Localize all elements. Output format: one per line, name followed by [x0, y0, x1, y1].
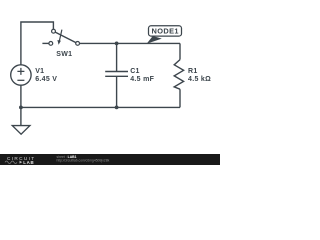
R1 value label 4.5 kOhm: [188, 76, 211, 83]
svg-text:4.5 kΩ: 4.5 kΩ: [188, 76, 211, 83]
watermark bar: [0, 154, 220, 165]
svg-text:LAB: LAB: [23, 160, 34, 165]
svg-text:6.45 V: 6.45 V: [35, 76, 57, 83]
R1 name label: [188, 68, 198, 75]
wire: V1 bottom lead down to bottom rail: [20, 85, 22, 107]
svg-text:4.5 mF: 4.5 mF: [130, 76, 154, 83]
junction: bottom rail / V1-ground: [19, 106, 23, 110]
svg-text:R1: R1: [188, 68, 198, 75]
node NODE1 flag: [147, 26, 182, 44]
V1 name label: [35, 68, 44, 75]
C1 value label 4.5 mF: [130, 76, 154, 83]
junction: top rail / C1 branch: [115, 42, 119, 46]
wire: V1 top lead up, across top-left, down to SW1 top throw: [21, 22, 54, 65]
svg-text:V1: V1: [35, 68, 44, 75]
resistor R1: [174, 43, 183, 107]
voltage source V1: [11, 65, 31, 85]
wire: top rail from SW1 to R1 branch: [80, 42, 181, 44]
svg-text:http:∕∕circuitlab.com∕c6mg45b9: http:∕∕circuitlab.com∕c6mg45b9jx28k: [57, 159, 110, 163]
V1 value label 6.45 V: [35, 76, 57, 83]
capacitor C1: [105, 43, 128, 107]
wire: bottom rail: [21, 106, 180, 108]
SW1 name label: [56, 51, 72, 58]
svg-text:NODE1: NODE1: [151, 27, 178, 36]
C1 name label: [130, 68, 140, 75]
svg-text:SW1: SW1: [56, 51, 72, 58]
junction: bottom rail / C1 branch: [115, 106, 119, 110]
svg-text:C1: C1: [130, 68, 140, 75]
ground: [12, 107, 30, 134]
switch SW1: [42, 29, 79, 45]
